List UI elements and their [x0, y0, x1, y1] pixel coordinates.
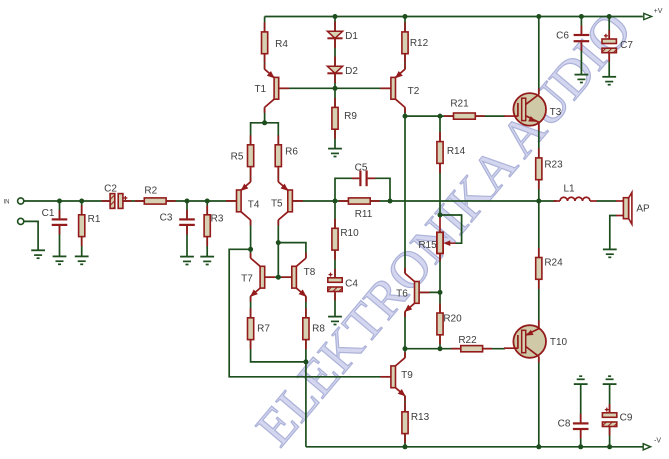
wire R3 bottom — [206, 237, 208, 257]
wire T4 collector — [250, 220, 252, 249]
svg-text:T4: T4 — [248, 199, 260, 210]
svg-text:R20: R20 — [443, 313, 462, 324]
wire C6 top — [580, 17, 582, 34]
node R14 R15 — [438, 213, 443, 218]
svg-text:IN: IN — [4, 200, 10, 206]
capacitor C4 — [328, 269, 359, 300]
wire T10 collector to rail — [538, 356, 540, 446]
node top rail C6 — [579, 14, 584, 19]
resistor R11 — [339, 198, 380, 220]
node C3 — [185, 199, 190, 204]
node T6 emitter T9 — [403, 346, 408, 351]
wire output to R24 — [538, 201, 540, 258]
node D2 R9 bases — [333, 86, 338, 91]
wire T3 collector to rail — [538, 17, 540, 95]
svg-text:D2: D2 — [345, 66, 358, 77]
IN jack terminal 2 — [18, 218, 24, 224]
svg-text:C3: C3 — [160, 213, 173, 224]
node T1 collector R5 R6 — [262, 120, 267, 125]
IN jack terminal 1 — [18, 198, 24, 204]
wire T3 emitter to R23 — [538, 122, 540, 158]
svg-text:R24: R24 — [544, 258, 563, 269]
wire C3 top — [186, 201, 188, 218]
svg-text:D1: D1 — [345, 31, 358, 42]
node top rail C7 — [607, 14, 612, 19]
wire C5 left — [335, 178, 359, 201]
wire T2 collector — [404, 107, 406, 116]
transistor T4 — [226, 176, 260, 225]
wire T9 collector — [404, 349, 406, 358]
wire T7 emitter to R7 — [250, 296, 252, 318]
resistor R1 — [79, 205, 101, 246]
wire C4 bottom — [334, 293, 336, 317]
resistor R22 — [451, 335, 492, 352]
wire R12 top — [404, 17, 406, 32]
svg-text:R22: R22 — [458, 335, 477, 346]
svg-text:AP: AP — [636, 204, 650, 215]
svg-text:R11: R11 — [355, 209, 373, 220]
svg-text:R23: R23 — [544, 160, 563, 171]
wire R4 to T1 emitter — [264, 54, 266, 70]
node rail C9 — [607, 444, 612, 449]
node R20 R22 — [438, 346, 443, 351]
wire C7 bottom — [608, 52, 610, 77]
wire D2 to node — [334, 73, 336, 88]
ground C8 inverted — [574, 376, 588, 384]
svg-text:T10: T10 — [550, 337, 568, 348]
resistor R2 — [135, 185, 176, 204]
ground R1 — [75, 256, 89, 264]
transistor T5 — [271, 176, 303, 225]
wire R7 bottom — [251, 340, 306, 362]
svg-text:R15: R15 — [418, 240, 437, 251]
resistor R8 — [303, 308, 326, 349]
capacitor C6 — [556, 25, 589, 50]
svg-text:R4: R4 — [275, 39, 288, 50]
svg-text:T6: T6 — [396, 288, 408, 299]
svg-text:T9: T9 — [401, 370, 413, 381]
svg-text:R10: R10 — [340, 228, 359, 239]
svg-text:R1: R1 — [88, 214, 101, 225]
node top rail D1 — [333, 14, 338, 19]
svg-text:+V: +V — [654, 8, 663, 15]
capacitor C9 — [602, 404, 632, 435]
svg-text:T2: T2 — [408, 86, 420, 97]
wire C6 bottom — [580, 42, 582, 74]
svg-text:R13: R13 — [411, 412, 430, 423]
svg-text:R12: R12 — [410, 38, 429, 49]
wire R20 bottom — [439, 335, 441, 349]
wire top +V rail — [265, 16, 643, 18]
transistor T6 — [396, 268, 429, 317]
capacitor C5 — [352, 163, 376, 187]
node C1 — [57, 199, 62, 204]
svg-text:C2: C2 — [104, 183, 117, 194]
svg-text:T1: T1 — [254, 84, 266, 95]
ground C4 — [328, 317, 342, 325]
wire T7 T8 base rail — [265, 276, 292, 278]
resistor R13 — [402, 402, 430, 443]
wire input line left — [24, 200, 110, 202]
transistor T9 — [380, 352, 413, 401]
resistor R23 — [536, 148, 563, 189]
node T7 T8 bases — [276, 275, 281, 280]
resistor R12 — [402, 22, 429, 63]
capacitor C7 — [602, 30, 633, 61]
power transistor T10 — [504, 321, 568, 363]
svg-text:R3: R3 — [211, 213, 224, 224]
ground C3 — [180, 257, 194, 265]
svg-text:L1: L1 — [563, 184, 575, 195]
ground C6 — [575, 75, 589, 83]
wire T9 emitter to R13 — [404, 396, 406, 412]
wire R15 bottom — [439, 254, 441, 293]
wire C3 bottom — [186, 226, 188, 257]
node rail T10 — [536, 444, 541, 449]
svg-text:R2: R2 — [144, 185, 157, 196]
ground C9 inverted — [603, 376, 617, 384]
wire R12 to T2 emitter — [404, 54, 406, 70]
wire bottom -V rail — [306, 446, 646, 448]
node R21 R14 — [438, 114, 443, 119]
svg-text:R7: R7 — [257, 324, 270, 335]
wire T6 base — [419, 291, 440, 293]
svg-text:C5: C5 — [355, 163, 368, 174]
svg-text:R8: R8 — [312, 323, 325, 334]
resistor R9 — [332, 98, 357, 139]
svg-text:R9: R9 — [344, 111, 357, 122]
resistor R4 — [262, 22, 289, 63]
wire C5 right — [368, 178, 390, 201]
ground speaker — [603, 249, 617, 257]
svg-text:R21: R21 — [450, 99, 469, 110]
wire T1 base to T2 base — [279, 87, 391, 89]
ground R9 — [328, 149, 342, 157]
node T5 base R10 — [333, 199, 338, 204]
node T5 T8 collectors — [276, 240, 281, 245]
resistor R21 — [444, 99, 485, 120]
wire C9 bottom — [609, 425, 611, 446]
svg-text:C7: C7 — [620, 40, 633, 51]
node R1 — [79, 199, 84, 204]
svg-text:C8: C8 — [558, 419, 571, 430]
resistor R10 — [332, 219, 359, 260]
trimmer R15 — [418, 215, 455, 261]
wire C7 top — [608, 17, 610, 40]
+V supply arrow — [644, 13, 652, 19]
transistor T1 — [254, 64, 289, 113]
resistor R3 — [204, 205, 224, 246]
wire feedback line — [292, 200, 538, 202]
svg-text:-V: -V — [654, 437, 661, 444]
resistor R14 — [437, 132, 466, 173]
ground input jack — [31, 250, 45, 258]
wire R3 top — [206, 201, 208, 215]
wire to bottom rail — [305, 362, 307, 447]
wire R22 line — [405, 348, 505, 350]
wire R4 top — [264, 17, 266, 32]
power transistor T3 — [504, 88, 562, 130]
wire input line right — [123, 200, 237, 202]
wire R8 bottom — [305, 340, 307, 362]
wire L1 to speaker — [597, 200, 617, 202]
transistor T8 — [281, 253, 315, 302]
node T6 base — [438, 290, 443, 295]
wire R9 top — [334, 88, 336, 107]
wire T8 emitter to R8 — [305, 296, 307, 318]
node T4 T7 collectors — [248, 247, 253, 252]
capacitor C8 — [558, 414, 589, 439]
node output — [536, 199, 541, 204]
capacitor C3 — [160, 210, 195, 235]
svg-text:T3: T3 — [550, 107, 562, 118]
speaker AP — [616, 192, 650, 224]
node rail C8 — [578, 444, 583, 449]
wire C8 bottom — [580, 430, 582, 447]
transistor T2 — [380, 64, 419, 113]
node R3 — [205, 199, 210, 204]
svg-text:C6: C6 — [556, 31, 569, 42]
wire T7 collector — [250, 249, 252, 258]
node rail R13 — [403, 444, 408, 449]
wire C1 bottom — [59, 226, 61, 257]
wire R10 top — [334, 201, 336, 228]
wire T5 emitter — [277, 167, 279, 182]
diode D2 — [327, 57, 358, 84]
resistor R7 — [248, 308, 271, 349]
node R7 R8 — [303, 359, 308, 364]
wire T6 emitter down — [404, 311, 406, 348]
-V supply arrow — [643, 444, 650, 450]
svg-text:R14: R14 — [447, 146, 466, 157]
wire R21 line — [405, 115, 505, 117]
svg-text:R5: R5 — [231, 152, 244, 163]
wire R23 to output — [538, 180, 540, 201]
diode D1 — [327, 22, 358, 49]
wire T6 collector up — [404, 116, 406, 273]
wire C8 top — [580, 384, 582, 422]
transistor T7 — [241, 253, 275, 302]
wire R20 top — [439, 292, 441, 313]
node T2 collector — [403, 114, 408, 119]
ground R3 — [200, 257, 214, 265]
wire R1 top — [81, 201, 83, 215]
wire R9 bottom — [334, 129, 336, 148]
inductor L1 — [554, 184, 597, 201]
svg-text:T7: T7 — [241, 274, 253, 285]
wire D1 to D2 — [334, 38, 336, 66]
wire R10 to C4 — [334, 250, 336, 277]
wire node to R14 — [439, 116, 441, 142]
svg-text:C9: C9 — [620, 413, 633, 424]
ground C7 — [602, 77, 616, 85]
resistor R20 — [437, 304, 462, 345]
wire T5 node down — [277, 243, 279, 278]
wire R14 to R15 — [439, 163, 441, 215]
wire C9 top — [609, 384, 611, 413]
wire T5 node to T8 collector — [278, 243, 306, 259]
wire jack2 to ground — [24, 221, 38, 250]
wire R15 wiper loop — [440, 215, 462, 243]
wire D1 top — [334, 17, 336, 32]
node top rail R12 — [403, 14, 408, 19]
svg-text:R6: R6 — [285, 147, 298, 158]
svg-text:T8: T8 — [304, 267, 316, 278]
wire output to L1 — [539, 200, 557, 202]
capacitor C2 — [102, 183, 132, 208]
svg-text:C1: C1 — [42, 208, 55, 219]
resistor R6 — [275, 135, 298, 176]
wire node A to T9 base — [229, 249, 391, 376]
wire speaker to ground — [610, 216, 617, 250]
wire R1 bottom — [81, 237, 83, 257]
wire R24 to T10 emitter — [538, 279, 540, 328]
wire R13 bottom — [404, 434, 406, 447]
node C5 R11 — [388, 199, 393, 204]
ground C1 — [53, 256, 67, 264]
capacitor C1 — [42, 208, 68, 235]
node top rail T3 — [536, 14, 541, 19]
resistor R5 — [231, 135, 254, 176]
resistor R24 — [536, 248, 563, 289]
svg-text:C4: C4 — [345, 279, 358, 290]
wire T5 collector — [277, 220, 279, 243]
wire T1 collector to R5 R6 node — [251, 123, 279, 145]
wire C1 top — [59, 201, 61, 218]
wire T4 emitter — [250, 167, 252, 182]
svg-text:T5: T5 — [271, 198, 283, 209]
